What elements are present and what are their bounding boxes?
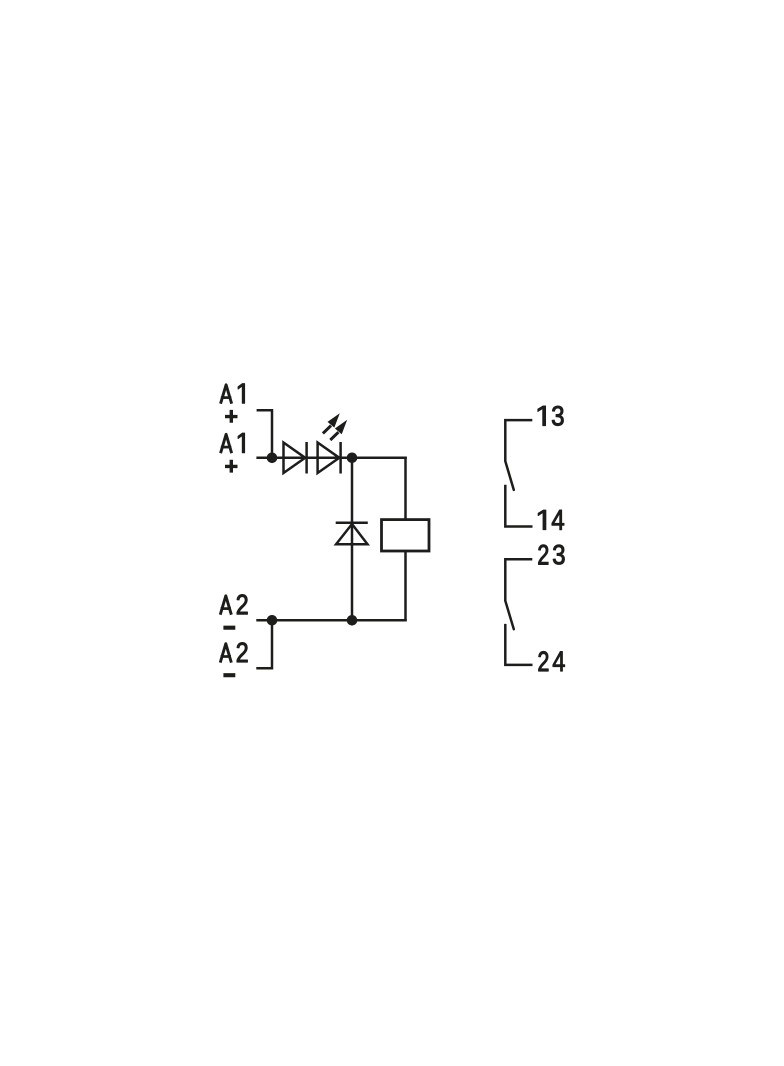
wire from coil bottom down [404, 551, 407, 620]
contact label 13 [538, 406, 564, 426]
wire stub from A2 lower terminal [256, 623, 272, 668]
contact label 24 [539, 651, 565, 671]
contact label 14 [538, 510, 564, 530]
LED D2 cathode bar [339, 442, 342, 474]
minus sign for A2 (upper) [223, 626, 235, 630]
contact 23-24: wire terminal 23 [505, 559, 532, 601]
freewheel diode triangle [336, 524, 367, 544]
relay coil K1 [382, 520, 430, 551]
terminal label A1 (upper) [221, 384, 245, 404]
contact 13-14: wire terminal 14 [505, 485, 532, 527]
freewheel diode vertical wire [351, 458, 354, 621]
terminal label A2 (upper) [220, 595, 247, 615]
minus sign for A2 (lower) [223, 673, 235, 677]
wire stub from A1 upper terminal [257, 410, 272, 455]
LED D2 triangle [318, 443, 340, 474]
wire A2 main horizontal [256, 619, 407, 622]
node junction dot upper-left [267, 453, 278, 464]
contact 23-24: wire terminal 24 [505, 624, 532, 665]
freewheel diode cathode bar [336, 521, 368, 524]
node junction dot lower-left [267, 615, 278, 626]
node junction dot lower-mid [347, 615, 358, 626]
diode D1 (series diode) [284, 443, 306, 474]
plus sign for A1 (upper) [225, 410, 238, 423]
plus sign for A1 (lower) [225, 460, 238, 473]
diode D1 cathode bar [305, 442, 308, 474]
LED arrow 2 [330, 420, 347, 440]
contact 13-14: wire terminal 13 [505, 420, 532, 461]
contact 13-14: contact blade [505, 461, 514, 490]
LED arrow 1 [323, 413, 340, 433]
wire A1 main horizontal [256, 457, 406, 460]
contact label 23 [538, 545, 564, 565]
contact 23-24: contact blade [505, 601, 514, 629]
terminal label A1 (lower) [221, 433, 245, 453]
wire from top wire down to coil [404, 457, 407, 520]
node junction dot at LED cathode [347, 453, 358, 464]
terminal label A2 (lower) [220, 643, 247, 663]
